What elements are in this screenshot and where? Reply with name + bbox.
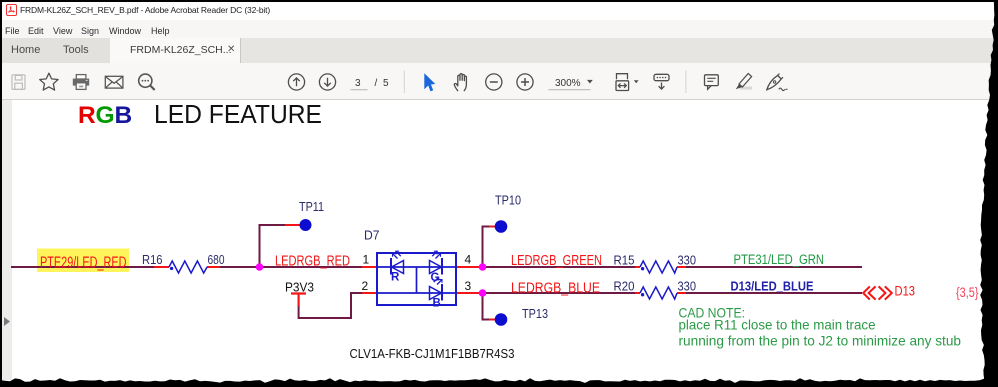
save icon (disabled) bbox=[12, 75, 25, 90]
hand tool bbox=[454, 74, 466, 91]
pin wire TP13 bbox=[489, 319, 497, 321]
power symbol P3V3 bbox=[291, 294, 306, 307]
toolbar bbox=[0, 63, 998, 100]
pdf app icon bbox=[6, 4, 17, 16]
resistor R20 bbox=[640, 287, 677, 299]
off-page connector to D13 bbox=[863, 286, 892, 299]
junction node LEDRGB_GREEN bbox=[479, 263, 487, 271]
wire net LEDRGB_GREEN bbox=[483, 266, 636, 268]
pin wires R15 bbox=[635, 266, 686, 268]
document area bbox=[0, 100, 998, 387]
wire net PTE31/LED_GRN bbox=[686, 266, 862, 268]
hide toolbar icon bbox=[654, 74, 669, 89]
fit page icon bbox=[616, 74, 629, 91]
resistor R16 bbox=[169, 261, 207, 273]
wire TP10 stub bbox=[483, 227, 490, 268]
pin wires R20 bbox=[635, 292, 686, 294]
right torn edge bbox=[980, 0, 998, 387]
test point TP10 bbox=[495, 220, 508, 233]
bottom torn edge bbox=[0, 378, 998, 387]
wire net LEDRGB_RED bbox=[220, 266, 362, 268]
zoom in button bbox=[517, 74, 533, 90]
schematic svg bbox=[0, 100, 998, 387]
left nav strip bbox=[2, 100, 12, 380]
pin wire D7 pin 4 bbox=[456, 266, 483, 268]
select cursor (blue) bbox=[424, 73, 435, 91]
wire P3V3 to D7 pin 2 bbox=[299, 293, 362, 318]
wire net LEDRGB_BLUE bbox=[483, 292, 636, 294]
LED die B (blue diode) bbox=[430, 277, 443, 300]
active document tab bbox=[110, 38, 240, 63]
pin wire TP10 bbox=[489, 226, 497, 228]
comment bubble icon bbox=[705, 75, 719, 90]
wire net PTE29/LED_RED bbox=[11, 266, 154, 268]
pin wire TP11 bbox=[285, 224, 301, 226]
toolbar icons svg bbox=[0, 63, 998, 99]
separator bbox=[403, 71, 405, 94]
printer icon bbox=[73, 75, 89, 90]
left border bbox=[0, 0, 2, 387]
tab bar right section bbox=[240, 38, 998, 63]
LED die G (green diode) bbox=[430, 251, 443, 274]
page up button bbox=[288, 74, 304, 90]
menu items bbox=[5, 26, 20, 36]
tab labels bbox=[11, 44, 40, 56]
test point TP13 bbox=[495, 313, 508, 326]
wire TP13 stub bbox=[483, 293, 490, 320]
highlight on net PTE29/LED_RED bbox=[37, 249, 129, 273]
page down button bbox=[319, 74, 335, 90]
junction node LEDRGB_RED bbox=[256, 263, 264, 271]
search icon bbox=[139, 74, 155, 90]
menu bar bbox=[0, 20, 998, 38]
envelope icon bbox=[105, 76, 123, 88]
top border bbox=[0, 0, 994, 2]
highlighter icon bbox=[736, 74, 752, 90]
title bar bbox=[0, 0, 998, 20]
LED die R (red diode) bbox=[391, 251, 404, 274]
RGB LED D7 package body bbox=[377, 253, 456, 305]
pin wire D7 pin 3 bbox=[456, 292, 483, 294]
wire net D13/LED_BLUE bbox=[686, 292, 862, 294]
separator 2 bbox=[685, 71, 687, 94]
pin wire D7 pin 2 bbox=[362, 292, 377, 294]
sign pen icon bbox=[767, 74, 788, 91]
tab bar bbox=[0, 38, 998, 63]
window title bbox=[20, 5, 270, 15]
resistor R15 bbox=[640, 261, 677, 273]
wire TP11 stub bbox=[260, 225, 286, 267]
zoom out button bbox=[486, 74, 502, 90]
test point TP11 bbox=[300, 219, 312, 231]
pin wire D7 pin 1 bbox=[362, 266, 377, 268]
junction node LEDRGB_BLUE bbox=[479, 289, 487, 297]
star icon bbox=[40, 73, 58, 90]
sidebar expand arrow bbox=[3, 317, 11, 326]
pin wires R16 bbox=[154, 266, 220, 268]
